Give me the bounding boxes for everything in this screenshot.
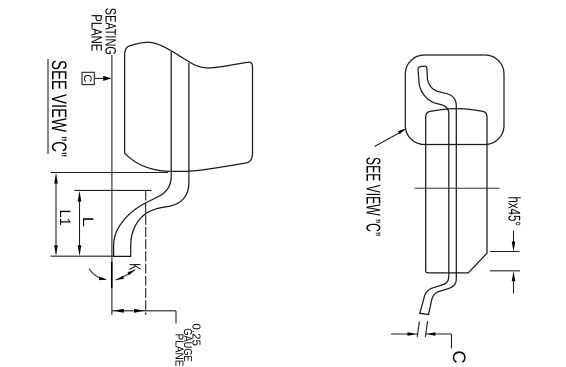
h dimension arrows [490, 231, 520, 294]
underline [47, 59, 49, 154]
svg-text:C: C [449, 351, 469, 364]
extension line top (body base) [51, 172, 168, 174]
K angle arc right [116, 270, 135, 280]
seating plane line [111, 55, 113, 315]
svg-text:L1: L1 [56, 210, 73, 226]
leader SEE VIEW C (right) [375, 133, 401, 147]
C dimension (lead thickness) [391, 321, 469, 364]
0.25 gauge dimension [112, 309, 176, 324]
svg-text:PLANE: PLANE [88, 14, 105, 51]
gauge plane line (dashed) [145, 190, 147, 315]
body (right figure) [426, 109, 487, 273]
datum arrowhead [103, 76, 111, 81]
view C callout box [405, 55, 504, 145]
lead tube (right figure) [418, 66, 456, 314]
center line across body [415, 187, 500, 189]
extension line gauge level [74, 189, 151, 191]
svg-text:SEE VIEW ”C”: SEE VIEW ”C” [362, 157, 384, 236]
body outline (left figure) [125, 42, 253, 171]
svg-text:K: K [126, 263, 143, 270]
label 0.25 GAUGE PLANE [172, 323, 201, 366]
svg-text:PLANE: PLANE [172, 334, 184, 367]
svg-text:C: C [81, 74, 93, 82]
extension line bottom (lead tip) [51, 255, 114, 257]
label SEATING PLANE [88, 8, 119, 55]
dimension L1 [54, 173, 73, 256]
dimension L [78, 191, 96, 256]
datum box C [81, 72, 94, 84]
lead foot extended line (overlap at K angle) [111, 262, 113, 288]
datum leader [94, 77, 104, 79]
lead (left figure) [114, 52, 189, 256]
svg-text:L: L [79, 217, 96, 227]
svg-text:hx45°: hx45° [505, 197, 524, 227]
K angle arc left [89, 269, 106, 280]
svg-text:SEE VIEW ”C”: SEE VIEW ”C” [47, 60, 70, 157]
